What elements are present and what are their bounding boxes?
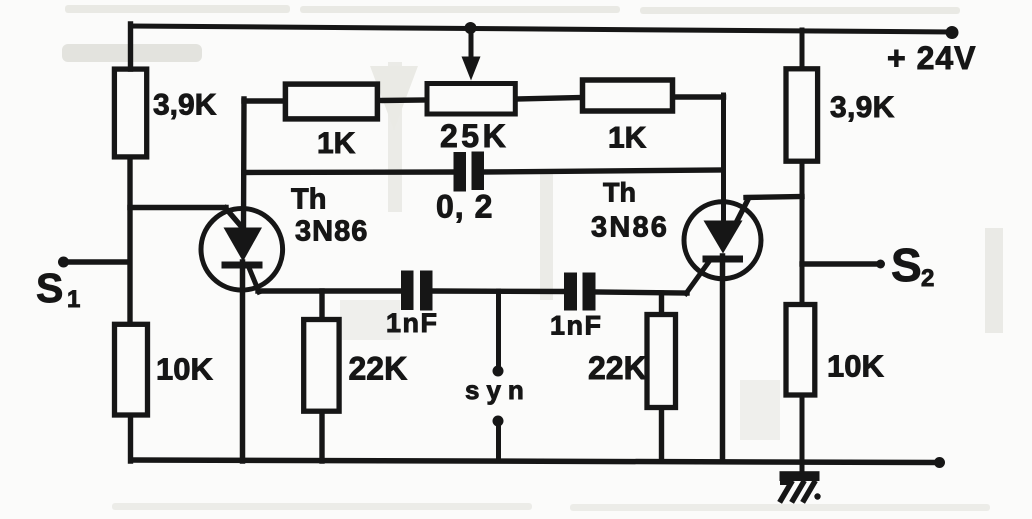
wire cathode column of Th2 to bottom rail	[720, 256, 726, 461]
svg-text:1nF: 1nF	[550, 311, 603, 341]
wire anode-left from S1 column	[130, 205, 226, 210]
resistor 1K right	[583, 80, 673, 111]
svg-text:0, 2: 0, 2	[436, 189, 493, 225]
resistor 10K left	[115, 324, 148, 415]
wire right column middle (3,9K to 10K)	[800, 163, 805, 303]
ground bar	[780, 471, 820, 481]
resistor 22K right	[647, 315, 676, 408]
wire gate line left segment	[258, 288, 402, 293]
wire node A vertical (1K left down to thyristor anode)	[241, 99, 247, 229]
potentiometer 25K body	[427, 84, 515, 115]
svg-text:Th: Th	[603, 178, 636, 208]
diagonal lead into anode of Th1	[226, 208, 244, 229]
wire cathode column of Th1 to bottom rail	[240, 262, 246, 461]
resistor 3,9K right	[786, 69, 818, 161]
svg-text:10K: 10K	[156, 352, 213, 387]
anode triangle of Th2	[704, 221, 743, 254]
svg-text:22K: 22K	[349, 351, 408, 387]
junction blob at wiper tap	[465, 22, 477, 34]
svg-text:S: S	[36, 265, 63, 311]
svg-text:3N86: 3N86	[295, 216, 368, 248]
wire left column bottom (10K to rail)	[128, 417, 133, 461]
capacitor 1nF left plates	[401, 271, 414, 311]
resistor 22K left	[304, 320, 339, 412]
cathode bar of Th2	[703, 256, 744, 263]
ground hatch strokes	[781, 483, 791, 500]
svg-text:3,9K: 3,9K	[153, 89, 217, 122]
wire 22K left bottom lead	[319, 414, 324, 462]
svg-text:+ 24V: + 24V	[887, 40, 977, 76]
wire 22K right top lead	[659, 293, 664, 313]
svg-text:Th: Th	[291, 184, 326, 216]
wire 22K right bottom lead	[659, 410, 664, 461]
wire syn stub lower to bottom rail	[496, 423, 501, 461]
wire 0,2 row right segment	[484, 170, 723, 172]
wire 22K left top lead	[319, 291, 324, 318]
wire 1K right to node B	[675, 94, 724, 99]
ground hatch dot	[814, 493, 820, 499]
wire node B vertical (1K right down to Th2 anode)	[721, 95, 726, 221]
wire left column (3,9K to 10K)	[127, 161, 132, 323]
gate lead of Th2	[686, 260, 711, 294]
svg-text:1K: 1K	[608, 122, 647, 155]
wire gate line middle segment	[432, 288, 566, 294]
terminal dot S2	[876, 260, 885, 269]
wire node A to 1K left	[244, 98, 284, 103]
bottom rail end dot	[934, 457, 945, 468]
wire Th2 anode to right column	[746, 197, 802, 198]
diagonal anode exit lead of Th2	[737, 199, 749, 223]
wire right column bottom (10K to rail)	[800, 397, 805, 472]
svg-text:1nF: 1nF	[386, 308, 439, 338]
svg-text:22K: 22K	[588, 350, 647, 386]
terminal dot S1	[58, 257, 69, 268]
capacitor 0,2 plates	[454, 152, 467, 192]
svg-text:1: 1	[67, 286, 80, 313]
terminal dot syn upper	[493, 366, 504, 377]
wire gate line right segment	[595, 292, 687, 293]
+24V terminal dot	[946, 26, 959, 39]
wiper arm of 25K from rail	[469, 27, 474, 62]
wire 0,2 row left segment	[244, 169, 454, 175]
svg-text:1K: 1K	[317, 127, 356, 160]
anode triangle of Th1	[224, 228, 263, 262]
cathode bar of Th1	[222, 262, 263, 269]
svg-text:3,9K: 3,9K	[830, 91, 895, 124]
wire pot 25K to 1K right	[518, 98, 581, 100]
wire S2 lead	[802, 261, 878, 266]
wire S1 lead	[63, 259, 129, 264]
capacitor 1nF right plates	[564, 273, 577, 311]
svg-text:3N86: 3N86	[591, 212, 669, 244]
resistor 10K right	[786, 305, 815, 396]
resistor 1K left	[285, 84, 377, 119]
wire bottom rail	[132, 460, 939, 463]
svg-text:10K: 10K	[827, 349, 884, 384]
wire left column top (rail to R 3,9K)	[128, 24, 133, 69]
terminal dot syn lower	[493, 416, 504, 427]
svg-text:S: S	[891, 239, 922, 291]
thyristor Th1 3N86 left : circle	[201, 209, 283, 291]
svg-text:syn: syn	[465, 375, 531, 405]
wire 1K left to pot 25K	[380, 97, 426, 103]
wire right column top (rail to 3,9K right)	[800, 30, 805, 67]
gate lead of Th1	[249, 267, 260, 293]
resistor 3,9K left	[114, 69, 146, 157]
svg-text:2: 2	[921, 265, 934, 292]
thyristor Th2 3N86 right : circle	[684, 202, 761, 279]
svg-text:25K: 25K	[440, 118, 509, 154]
wire +24V top rail	[131, 26, 950, 32]
wire syn stub upper	[496, 291, 501, 369]
